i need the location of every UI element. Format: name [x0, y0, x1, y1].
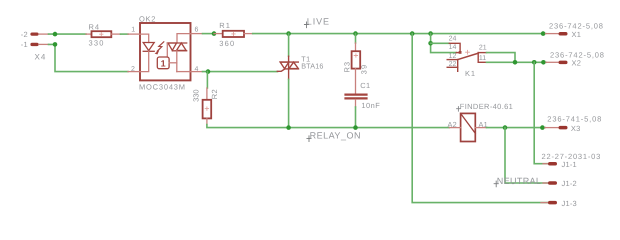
svg-text:J1-3: J1-3 — [562, 199, 577, 208]
OK2 internal triac — [167, 34, 190, 72]
svg-text:24: 24 — [449, 35, 457, 42]
svg-text:1: 1 — [161, 59, 166, 69]
node junction at X4 -2 — [53, 32, 58, 37]
node junction 21 corner — [513, 60, 518, 65]
svg-text:K1: K1 — [465, 69, 476, 78]
svg-text:A2: A2 — [448, 120, 457, 129]
svg-text:-1: -1 — [21, 40, 28, 49]
svg-text:J1-2: J1-2 — [562, 179, 577, 188]
node junction rail near X1 — [541, 31, 546, 36]
svg-text:2: 2 — [131, 66, 135, 73]
connector X3 — [545, 115, 602, 134]
wire C1 bottom to RELAY_ON — [355, 107, 357, 128]
svg-text:R4: R4 — [89, 22, 101, 31]
wire pin4 net to R2 and T1 gate — [203, 71, 278, 73]
resistor R1 — [214, 21, 253, 48]
svg-text:MOC3043M: MOC3043M — [139, 82, 186, 91]
svg-text:R2: R2 — [210, 89, 219, 99]
OK2 pin 6 — [191, 26, 203, 33]
connector J1-3 — [541, 199, 577, 208]
transistor Q1 : triac T1 BTA16 — [277, 34, 323, 80]
wire R4 to OK2 pin 1 — [121, 33, 129, 35]
OK2 pin 1 — [128, 26, 140, 34]
wire NEUTRAL vertical and J1-2 line — [505, 128, 548, 183]
node junction rail/R3 — [353, 31, 358, 36]
node junction K1 drop branch — [428, 41, 433, 46]
svg-text:360: 360 — [219, 39, 235, 48]
svg-text:RELAY_ON: RELAY_ON — [310, 130, 361, 140]
node junction C1/RELAY_ON — [353, 125, 358, 130]
svg-text:-2: -2 — [21, 30, 28, 39]
wire K1 pin 21 to X2 row — [487, 53, 516, 63]
svg-text:236-741-5,08: 236-741-5,08 — [547, 115, 602, 124]
wire X2 row — [487, 61, 547, 63]
wire J1-1 vertical from X2 — [534, 62, 547, 163]
svg-text:R3: R3 — [342, 61, 351, 73]
svg-text:11: 11 — [479, 55, 486, 62]
relay coil K1 FINDER-40.61 — [448, 102, 514, 142]
node junction rail/T1 — [286, 31, 291, 36]
svg-text:1: 1 — [131, 26, 135, 33]
svg-text:39: 39 — [360, 64, 369, 75]
svg-text:LIVE: LIVE — [307, 17, 330, 27]
svg-text:10nF: 10nF — [361, 101, 380, 110]
node junction rail/K1 drop — [428, 31, 433, 36]
wire X4 -1 down and right to OK2 pin 2 — [49, 44, 129, 71]
svg-text:6: 6 — [195, 26, 199, 33]
wire X3 row from coil A1 — [487, 127, 546, 129]
OK2 pin 4 — [191, 66, 203, 73]
wire T1 bottom to RELAY_ON — [288, 79, 290, 127]
wire K1 drop from LIVE — [431, 34, 457, 53]
capacitor C1 — [346, 81, 381, 110]
wire LIVE rail from R1 to X1 — [253, 33, 546, 35]
connector X1 — [546, 21, 604, 39]
svg-text:FINDER-40.61: FINDER-40.61 — [460, 102, 513, 111]
node junction pin4/R2 — [206, 69, 211, 74]
resistor R3 — [342, 34, 368, 94]
node junction rail/long vertical — [410, 31, 415, 36]
wire X4 -2 to R4 — [49, 33, 87, 35]
svg-text:4: 4 — [195, 66, 199, 73]
svg-text:C1: C1 — [360, 81, 370, 90]
node LIVE label — [304, 17, 330, 28]
resistor R4 — [86, 22, 121, 47]
wire branch to K1 pin 24 — [431, 42, 450, 44]
svg-text:330: 330 — [89, 39, 105, 48]
svg-text:OK2: OK2 — [139, 15, 156, 24]
svg-text:X1: X1 — [572, 30, 582, 39]
svg-text:14: 14 — [449, 44, 457, 51]
svg-text:J1-1: J1-1 — [562, 160, 577, 169]
wire R2 bottom to RELAY_ON line — [207, 125, 449, 128]
svg-text:21: 21 — [479, 44, 487, 51]
wire long vertical LIVE to J1-3 — [412, 34, 548, 203]
wire R2 top lead — [206, 72, 208, 88]
connector X4 pin -1 — [21, 40, 49, 49]
OK2 internal coupling arrow — [155, 42, 164, 55]
resistor R2 — [191, 88, 219, 125]
svg-text:X2: X2 — [572, 59, 582, 68]
node junction X2 row segment join — [541, 60, 546, 65]
svg-text:BTA16: BTA16 — [301, 62, 323, 71]
connector X2 — [546, 50, 605, 67]
node RELAY_ON label — [307, 130, 361, 141]
connector J1-2 — [543, 179, 577, 188]
node junction X2/J1-1 vertical — [532, 60, 537, 65]
svg-text:NEUTRAL: NEUTRAL — [497, 176, 541, 186]
svg-text:X4: X4 — [35, 53, 47, 62]
OK2 internal zero-cross block — [157, 57, 177, 69]
node junction T1/RELAY_ON — [286, 125, 291, 130]
node junction at X4 -1 — [53, 42, 58, 47]
node NEUTRAL label — [494, 176, 541, 187]
connector X4 pin -2 — [21, 30, 49, 39]
node junction left of R1 — [212, 31, 217, 36]
relay contact K1 — [447, 35, 487, 78]
wire OK2 pin 6 to R1 — [203, 33, 215, 35]
svg-text:330: 330 — [191, 89, 200, 102]
svg-text:R1: R1 — [219, 21, 231, 30]
node junction X3 row segment join — [540, 125, 545, 130]
svg-text:X3: X3 — [571, 124, 581, 133]
connector J1-1 — [542, 152, 602, 169]
OK2 internal LED — [140, 34, 154, 72]
op-amp U1 : optocoupler OK2 MOC3043M box — [139, 15, 191, 92]
node junction X3/NEUTRAL vertical — [503, 125, 508, 130]
OK2 pin 2 — [128, 66, 140, 73]
